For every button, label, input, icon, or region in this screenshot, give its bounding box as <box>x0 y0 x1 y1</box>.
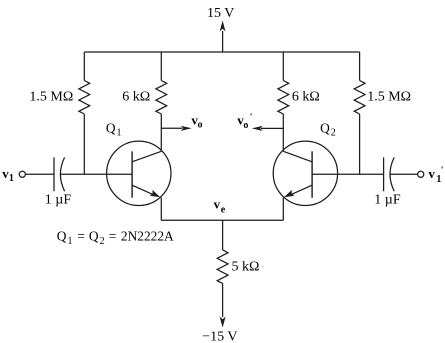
svg-text:=: = <box>77 228 85 243</box>
svg-text:Q: Q <box>57 228 67 243</box>
svg-text:6 kΩ: 6 kΩ <box>292 90 320 105</box>
svg-text:1 µF: 1 µF <box>45 192 72 207</box>
svg-text:6 kΩ: 6 kΩ <box>122 90 150 105</box>
capacitor C2 1uF right plate <box>383 157 385 191</box>
transistor Q1 base bar <box>131 151 133 198</box>
wire right 1.5M branch bottom <box>359 114 361 174</box>
wire emitter bus <box>161 219 283 221</box>
wire right 6k branch top <box>282 52 284 81</box>
output arrow vo <box>161 127 182 129</box>
capacitor C2 1uF curved plate <box>390 157 394 191</box>
svg-text:′: ′ <box>441 166 444 176</box>
power supply arrow 15 V <box>222 31 224 52</box>
svg-text:2: 2 <box>331 128 336 139</box>
svg-text:v: v <box>428 166 435 181</box>
resistor R3 6 kohm right <box>278 81 289 114</box>
svg-text:1.5 MΩ: 1.5 MΩ <box>367 90 411 105</box>
wire emitter Q2 <box>282 198 284 221</box>
svg-text:15 V: 15 V <box>207 6 234 21</box>
label Q1 = Q2 = 2N2222A <box>57 228 174 246</box>
svg-text:o: o <box>243 120 248 131</box>
svg-text:1 µF: 1 µF <box>374 193 401 208</box>
wire emitter Q1 <box>160 198 162 221</box>
transistor Q2 body <box>273 141 337 205</box>
svg-text:1: 1 <box>117 128 122 139</box>
wire input left <box>25 173 54 175</box>
transistor Q1 collector diagonal <box>132 151 161 162</box>
transistor Q2 base bar <box>311 151 313 198</box>
wire right 1.5M branch top <box>359 52 361 81</box>
svg-text:o: o <box>198 120 203 131</box>
capacitor C1 1uF curved plate <box>60 157 64 191</box>
input terminal v1 <box>19 171 25 177</box>
wire base Q2 <box>312 173 384 175</box>
transistor Q2 collector diagonal <box>283 151 312 162</box>
svg-text:1: 1 <box>9 173 14 184</box>
resistor R1 1.5 Mohm left <box>79 81 90 114</box>
capacitor C1 1uF left plate <box>53 157 55 191</box>
resistor R4 1.5 Mohm right <box>354 81 365 114</box>
resistor R5 5 kohm <box>217 250 228 284</box>
wire tail top <box>222 220 224 250</box>
wire input right <box>390 173 417 175</box>
wire top rail +15V <box>84 51 359 53</box>
transistor Q1 emitter diagonal with arrow <box>132 185 153 194</box>
wire base Q1 <box>61 173 133 175</box>
wire left 1.5M branch top <box>83 52 85 81</box>
svg-text:v: v <box>214 197 221 212</box>
wire collector Q2 <box>282 114 284 151</box>
svg-text:Q: Q <box>320 120 330 135</box>
svg-text:e: e <box>221 205 226 216</box>
svg-text:2: 2 <box>100 236 105 247</box>
wire collector Q1 <box>160 114 162 151</box>
svg-text:′: ′ <box>250 113 253 123</box>
transistor Q1 body <box>107 141 171 205</box>
svg-text:=: = <box>109 228 117 243</box>
svg-text:−15 V: −15 V <box>202 329 237 343</box>
wire tail bottom with arrow to -15V <box>222 283 224 317</box>
svg-text:5 kΩ: 5 kΩ <box>232 260 260 275</box>
input terminal v1' <box>418 171 424 177</box>
resistor R2 6 kohm left <box>156 81 167 114</box>
wire left 6k branch top <box>160 52 162 81</box>
svg-text:Q: Q <box>106 120 116 135</box>
svg-text:2N2222A: 2N2222A <box>121 228 174 243</box>
svg-text:1: 1 <box>68 236 73 247</box>
svg-text:1.5 MΩ: 1.5 MΩ <box>29 90 73 105</box>
svg-text:Q: Q <box>89 228 99 243</box>
output arrow vo' <box>261 127 283 129</box>
wire left 1.5M branch bottom <box>83 114 85 174</box>
transistor Q2 emitter diagonal with arrow <box>291 185 312 194</box>
